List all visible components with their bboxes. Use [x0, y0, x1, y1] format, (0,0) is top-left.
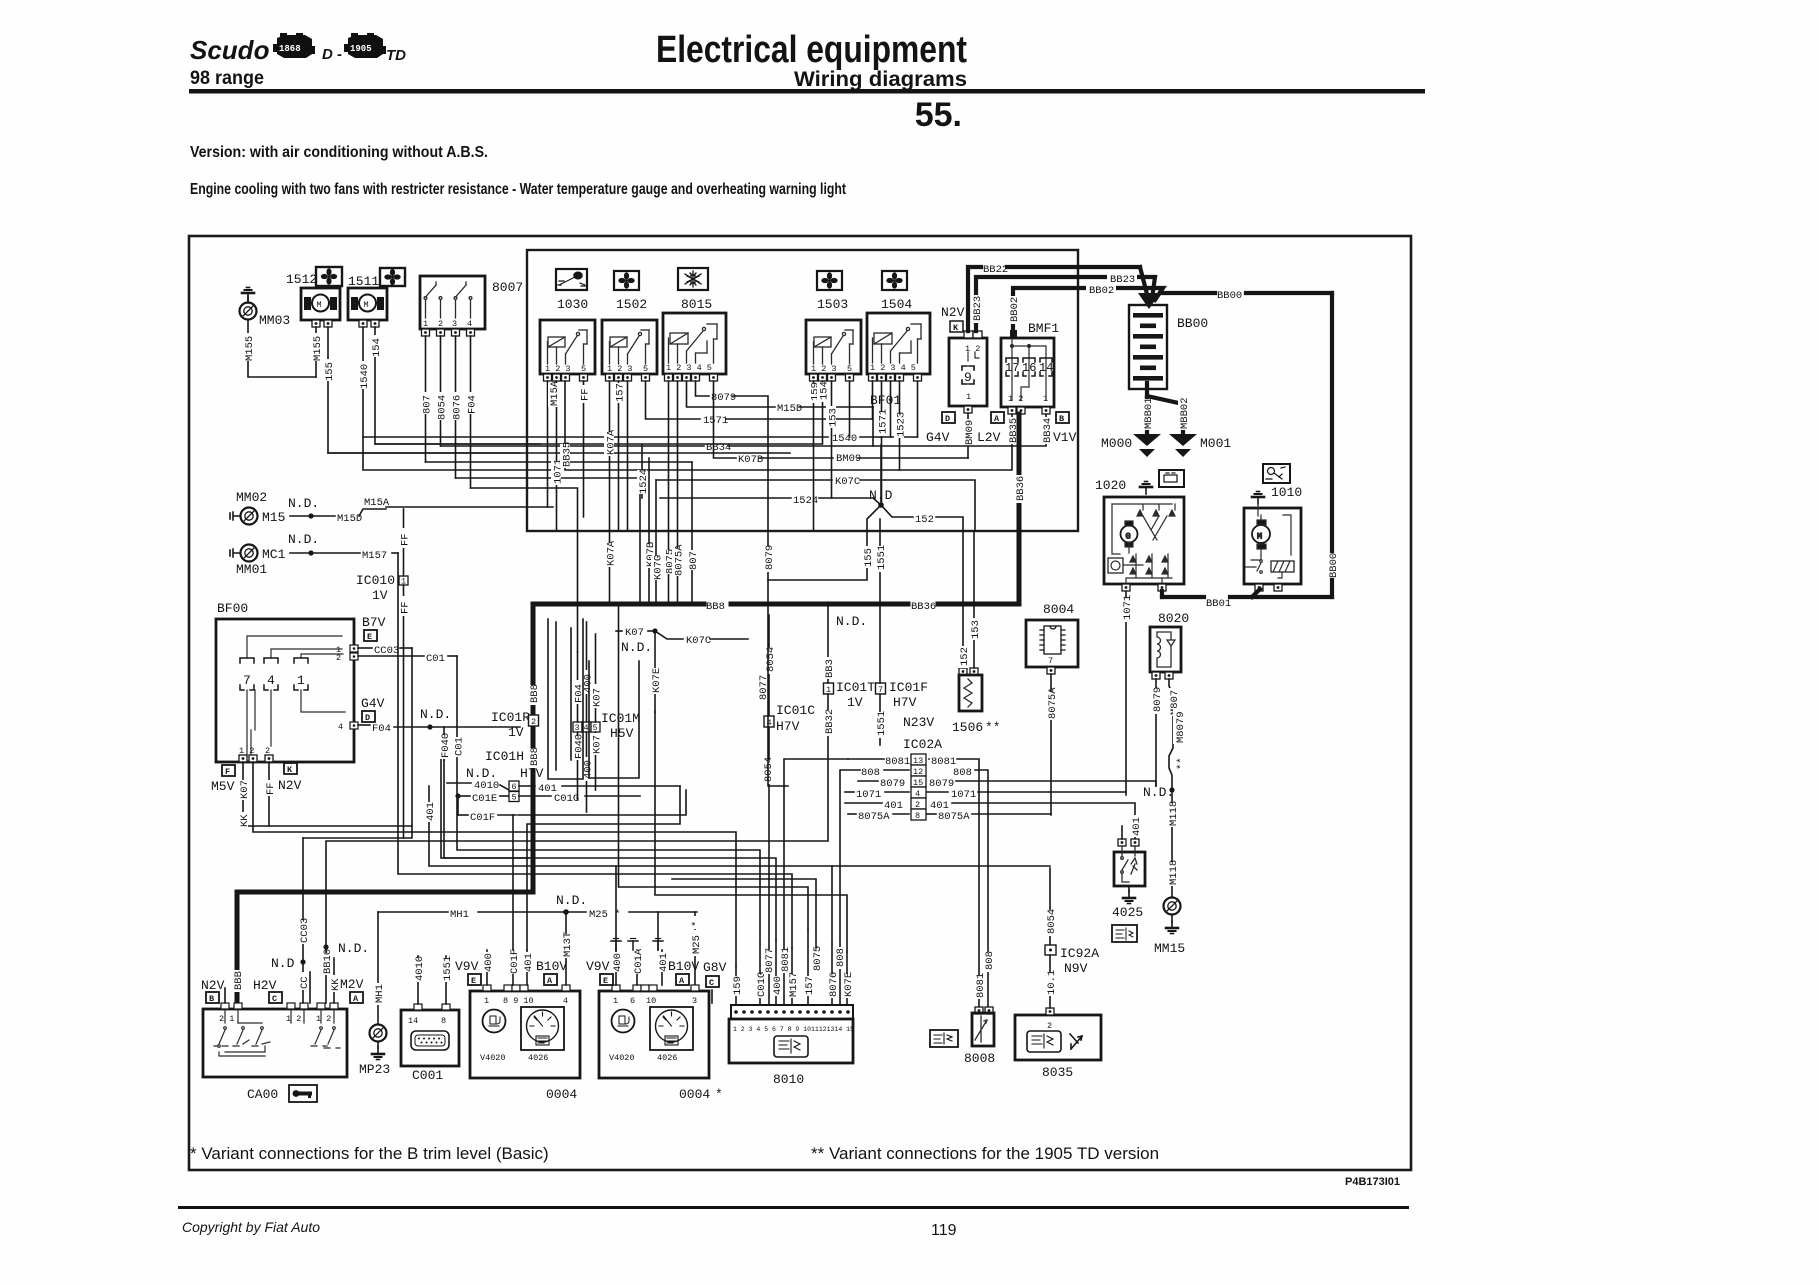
wire K07G vertical below box [655, 480, 657, 604]
svg-text:Version: with air conditioning: Version: with air conditioning without A… [190, 144, 488, 161]
ignition switch CA00 [203, 1003, 347, 1102]
wire 157 relay1502 pin2 [618, 381, 620, 531]
svg-text:808: 808 [953, 767, 972, 779]
svg-text:C01G: C01G [554, 793, 579, 805]
svg-text:808: 808 [835, 948, 847, 967]
svg-text:C01F: C01F [470, 812, 495, 824]
wire MH1 horizontal / M25 [378, 911, 448, 913]
svg-text:8015: 8015 [681, 297, 712, 312]
sensor MM15 [1164, 898, 1181, 915]
svg-text:1: 1 [1043, 394, 1048, 404]
svg-text:8054: 8054 [763, 757, 775, 782]
svg-text:4010: 4010 [474, 780, 499, 792]
wire MH1 vertical [377, 912, 379, 1024]
svg-text:16: 16 [1022, 361, 1036, 375]
wire 8075A relay8015 pin2 [677, 381, 679, 604]
wire K07B vertical below box [648, 458, 650, 604]
wire K07B relay8015 pin5 [714, 381, 737, 458]
wire 8076 vertical to 8010 [831, 866, 833, 944]
svg-text:4010: 4010 [414, 956, 426, 981]
svg-text:N.D.: N.D. [288, 532, 319, 547]
wire 1540 pin1 1511 [363, 327, 560, 470]
wire C01F [457, 796, 459, 815]
svg-text:M15D: M15D [777, 403, 802, 415]
svg-text:M8079: M8079 [1175, 711, 1187, 743]
svg-text:8075A: 8075A [938, 811, 970, 823]
wire F040 route [444, 760, 776, 940]
svg-text:K07E: K07E [843, 972, 855, 997]
connector 8010 [729, 1005, 854, 1087]
svg-text:1512: 1512 [286, 272, 317, 287]
ECU 8004 [1026, 602, 1078, 674]
wire 8081 label [974, 975, 984, 999]
svg-text:N.D: N.D [271, 956, 295, 971]
wire FF vertical [403, 509, 405, 576]
svg-text:1 2: 1 2 [965, 344, 980, 354]
wire FF relay1030 pin5 [583, 381, 585, 517]
svg-text:400: 400 [772, 976, 784, 995]
svg-text:5: 5 [512, 793, 517, 803]
svg-text:6: 6 [630, 996, 635, 1006]
svg-text:Copyright by Fiat Auto: Copyright by Fiat Auto [182, 1219, 320, 1235]
outer diagram frame [189, 236, 1411, 1170]
wire 1010 to C001 [417, 956, 419, 1004]
wire K07E to 8010 [846, 952, 848, 1005]
svg-text:MH1: MH1 [450, 909, 469, 921]
svg-text:*: * [691, 921, 703, 927]
svg-text:8004: 8004 [1043, 602, 1074, 617]
svg-text:155: 155 [324, 362, 336, 381]
sensor MM03 [240, 303, 257, 320]
wire 8076 horizontal [456, 478, 641, 604]
rot labels lower mesh [439, 735, 449, 759]
wire 807 vertical below [691, 462, 693, 604]
svg-text:1551: 1551 [442, 956, 454, 981]
arrowhead into battery [1138, 293, 1160, 309]
svg-text:MC1: MC1 [262, 547, 286, 562]
wire up from junction [880, 445, 882, 505]
svg-text:153: 153 [970, 620, 982, 639]
svg-text:N.D.: N.D. [1143, 785, 1174, 800]
svg-text:MM01: MM01 [236, 562, 267, 577]
wire M15D relay8015 pin3 [687, 381, 776, 407]
wire C01A to 0004star [636, 950, 638, 985]
svg-text:IC01T: IC01T [836, 680, 875, 695]
svg-text:MM15: MM15 [1154, 941, 1185, 956]
wire BB10 segment + junction [323, 944, 328, 949]
engine icon 1868 [273, 33, 315, 58]
ladder row 808 [884, 769, 909, 771]
wire 8075A from 8004 [1050, 674, 1052, 815]
svg-text:BM09: BM09 [964, 420, 976, 445]
svg-text:1524: 1524 [638, 469, 650, 494]
svg-text:1571: 1571 [703, 415, 728, 427]
svg-text:H7V: H7V [776, 719, 800, 734]
wire 8076 [455, 336, 457, 478]
svg-text:V9V: V9V [586, 959, 610, 974]
wire H2V pin2 stub [309, 972, 311, 1003]
svg-text:400: 400 [483, 953, 495, 972]
svg-text:1868: 1868 [279, 44, 301, 54]
svg-text:8 9 10: 8 9 10 [503, 996, 534, 1006]
svg-text:N.D.: N.D. [466, 766, 497, 781]
svg-text:V9V: V9V [455, 959, 479, 974]
svg-text:N.D.: N.D. [288, 496, 319, 511]
svg-text:N.D.: N.D. [836, 614, 867, 629]
svg-text:8010: 8010 [773, 1072, 804, 1087]
svg-text:M5V: M5V [211, 779, 235, 794]
svg-text:IC01F: IC01F [889, 680, 928, 695]
svg-text:MM02: MM02 [236, 490, 267, 505]
svg-text:Scudo: Scudo [190, 35, 270, 65]
wire 8076 to 8010 [831, 944, 833, 1005]
svg-text:K: K [953, 323, 959, 333]
svg-text:808: 808 [984, 951, 996, 970]
svg-text:1 2: 1 2 [1008, 394, 1023, 404]
wire 8054 row to 8035 [616, 865, 1050, 867]
svg-text:MP23: MP23 [359, 1062, 390, 1077]
svg-text:BB01: BB01 [1206, 598, 1231, 610]
svg-text:4: 4 [563, 996, 568, 1006]
svg-text:153: 153 [828, 408, 840, 427]
svg-text:MM03: MM03 [259, 313, 290, 328]
wire 401 T-bar line [657, 912, 659, 950]
svg-text:1 2: 1 2 [286, 1014, 301, 1024]
svg-text:1071: 1071 [1122, 595, 1134, 620]
svg-text:B10V: B10V [668, 959, 699, 974]
svg-text:4026: 4026 [657, 1053, 677, 1063]
wire 1551 to C001 [445, 956, 447, 1004]
svg-text:1905: 1905 [350, 44, 372, 54]
svg-text:BB8: BB8 [706, 601, 725, 613]
svg-text:F040: F040 [440, 733, 452, 758]
T terminals [611, 939, 621, 951]
svg-text:M25: M25 [691, 935, 703, 954]
wire 154 pin2 1511 [375, 327, 540, 444]
svg-text:A: A [547, 976, 553, 986]
svg-text:8079: 8079 [764, 545, 776, 570]
svg-text:H7V: H7V [520, 766, 544, 781]
svg-text:F: F [225, 767, 230, 777]
svg-text:BB8: BB8 [529, 747, 541, 766]
wire 1571 relay1504 pin2 [881, 381, 883, 505]
svg-text:M: M [1257, 532, 1262, 542]
wire 808 label [834, 947, 844, 969]
connector K marker (below BF00) [284, 763, 297, 775]
svg-text:MBB02: MBB02 [1179, 397, 1191, 429]
svg-text:7: 7 [243, 673, 251, 688]
svg-text:G4V: G4V [361, 696, 385, 711]
battery BB00 [1129, 305, 1208, 389]
svg-text:10: 10 [646, 996, 656, 1006]
svg-text:C: C [272, 994, 277, 1004]
svg-text:H7V: H7V [893, 695, 917, 710]
wire BM09 from BF01 [967, 413, 969, 458]
svg-text:1551: 1551 [876, 545, 888, 570]
svg-text:8054: 8054 [1046, 909, 1058, 934]
wire 400 to 8010 [775, 940, 777, 1005]
wire 155 pin2 1512 [328, 327, 520, 453]
wire relay1502 pin3 [627, 381, 629, 531]
svg-text:K07C: K07C [835, 476, 860, 488]
svg-text:8: 8 [441, 1016, 446, 1026]
svg-text:Engine cooling with two fans w: Engine cooling with two fans with restri… [190, 181, 847, 198]
wire BB3 [827, 604, 829, 683]
wire C01F to 0004 [512, 950, 514, 985]
ladder row 8075A [893, 813, 909, 815]
svg-text:N.D.: N.D. [556, 893, 587, 908]
svg-text:A: A [679, 976, 685, 986]
wire 1524 vertical [641, 445, 643, 498]
svg-text:8: 8 [915, 811, 920, 821]
svg-text:BB34: BB34 [706, 442, 731, 454]
svg-text:Electrical equipment: Electrical equipment [656, 29, 967, 71]
svg-text:152: 152 [959, 647, 971, 666]
svg-text:1: 1 [613, 996, 618, 1006]
connector D marker [942, 412, 955, 424]
ground MM03 [242, 288, 254, 301]
svg-text:C01E: C01E [472, 793, 497, 805]
svg-text:1V: 1V [847, 695, 863, 710]
svg-text:M000: M000 [1101, 436, 1132, 451]
svg-text:BB36: BB36 [911, 601, 936, 613]
svg-text:808: 808 [861, 767, 880, 779]
svg-text:IC010: IC010 [356, 573, 395, 588]
svg-text:IC01M: IC01M [601, 711, 640, 726]
ground M000 [1133, 434, 1161, 457]
svg-text:C01A: C01A [633, 948, 645, 974]
wire K07A relay1502 pin1 [609, 381, 611, 604]
wire BB34 from BMF1 right pin [728, 414, 1046, 446]
connector F marker [222, 765, 235, 777]
wire 8054/8077 IC01C [768, 615, 770, 716]
svg-text:10.1: 10.1 [1046, 970, 1058, 995]
ladder row 8079 [858, 780, 878, 782]
svg-text:3: 3 [452, 319, 457, 329]
relay 1502 icon [614, 271, 647, 312]
svg-text:4: 4 [267, 673, 275, 688]
svg-text:IC92A: IC92A [1060, 946, 1099, 961]
svg-text:A: A [353, 994, 359, 1004]
wire 8075 relay8015 pin1 [668, 381, 670, 604]
svg-text:D -: D - [322, 46, 342, 63]
wire C01 route down [457, 656, 760, 944]
wire 401 to 4025 [1130, 815, 1140, 837]
svg-text:K07A: K07A [606, 429, 618, 455]
wire C01 from BF00 pin2 [358, 655, 424, 657]
svg-text:401: 401 [425, 802, 437, 821]
ladder row 401 [845, 802, 882, 804]
svg-text:154: 154 [371, 338, 383, 357]
instrument cluster 0004* [599, 985, 709, 1078]
svg-text:K07: K07 [592, 688, 604, 707]
wire 1551 lower [879, 694, 881, 745]
svg-text:1: 1 [297, 673, 305, 688]
svg-text:1506: 1506 [952, 720, 983, 735]
svg-text:8081: 8081 [780, 947, 792, 972]
svg-text:F04: F04 [372, 723, 391, 735]
wire 4010 [447, 782, 471, 784]
svg-text:N9V: N9V [1064, 961, 1088, 976]
wire FF from BF00 [268, 762, 270, 826]
svg-text:M001: M001 [1200, 436, 1231, 451]
svg-text:M155: M155 [244, 336, 256, 361]
wire 400 to 0004star [615, 950, 617, 985]
svg-text:2: 2 [438, 319, 443, 329]
svg-text:C01: C01 [426, 653, 445, 665]
svg-text:G4V: G4V [926, 430, 950, 445]
svg-text:1071: 1071 [951, 789, 976, 801]
svg-text:D: D [945, 414, 950, 424]
wire 153 relay1503 pin3 [831, 381, 833, 498]
svg-text:M118: M118 [1168, 801, 1180, 826]
svg-text:P4B173I01: P4B173I01 [1345, 1176, 1400, 1188]
svg-text:IC02A: IC02A [903, 737, 942, 752]
wire 8075 route to 8010 [672, 879, 816, 948]
wire 8079 relay8015 pin4 [696, 381, 710, 396]
svg-text:G8V: G8V [703, 960, 727, 975]
wire 401 to 0004 [526, 950, 528, 985]
wire relay1504 pin3 [890, 381, 892, 437]
svg-text:2: 2 [531, 717, 536, 727]
wire 155 [768, 505, 881, 580]
svg-text:157: 157 [615, 383, 627, 402]
svg-text:D: D [365, 713, 370, 723]
svg-text:1524: 1524 [793, 495, 818, 507]
svg-text:C01G: C01G [756, 972, 768, 997]
svg-text:N2V: N2V [941, 305, 965, 320]
wire routing U rect B [589, 661, 639, 778]
svg-text:N2V: N2V [201, 978, 225, 993]
header rule [189, 89, 1425, 94]
svg-text:1020: 1020 [1095, 478, 1126, 493]
connector B marker [1056, 412, 1069, 424]
svg-text:8008: 8008 [964, 1051, 995, 1066]
relay 1504 icon [881, 271, 912, 312]
svg-text:BB34: BB34 [1042, 418, 1054, 443]
wire MM03 ground stub [247, 296, 249, 303]
wire 1071 relay1030 pin2 [556, 381, 558, 531]
svg-text:8076: 8076 [452, 395, 464, 420]
svg-text:157: 157 [804, 976, 816, 995]
wire 807 horizontal [426, 461, 693, 463]
wire CC03/CC line [302, 838, 304, 1003]
svg-text:7: 7 [1048, 656, 1053, 666]
svg-text:8075A: 8075A [674, 544, 686, 576]
svg-text:TD: TD [386, 47, 406, 64]
svg-text:K07B: K07B [738, 454, 763, 466]
ladder connector IC02A pins [911, 754, 926, 821]
wire K07E route to 8010 [655, 712, 847, 952]
svg-text:M118: M118 [1168, 860, 1180, 885]
svg-text:MBB01: MBB01 [1143, 397, 1155, 429]
svg-text:BB00: BB00 [1177, 316, 1208, 331]
svg-text:1: 1 [484, 996, 489, 1006]
svg-text:A: A [994, 414, 1000, 424]
svg-text:14: 14 [408, 1016, 418, 1026]
starter motor 1010 [1244, 464, 1302, 591]
wire routing U rect A [548, 619, 583, 779]
svg-text:8075A: 8075A [1047, 687, 1059, 719]
svg-text:K07: K07 [625, 627, 644, 639]
wire 159 to 8010 [735, 966, 737, 1005]
wire M13T to 0004 [565, 912, 567, 985]
wire BB23 thick [976, 277, 1155, 331]
svg-text:9: 9 [964, 370, 972, 385]
svg-text:2: 2 [336, 653, 341, 663]
svg-text:V4020: V4020 [609, 1053, 635, 1063]
svg-text:1571: 1571 [878, 409, 890, 434]
svg-text:IC01H: IC01H [485, 749, 524, 764]
wire M15A relay1030 pin1 [547, 381, 549, 507]
svg-text:K07: K07 [239, 780, 251, 799]
svg-text:C01: C01 [454, 737, 466, 756]
svg-text:IC01C: IC01C [776, 703, 815, 718]
wire CC03 route down [303, 648, 412, 838]
wire C01E [455, 793, 460, 798]
ladder row 1071 [885, 791, 909, 793]
svg-text:1504: 1504 [881, 297, 912, 312]
wire K07E from junction [654, 631, 656, 712]
alternator 1020 [1095, 470, 1184, 591]
svg-text:8079: 8079 [711, 392, 736, 404]
wire 153 to 1506 [973, 531, 975, 668]
connector K marker [950, 321, 963, 333]
svg-text:1V: 1V [372, 588, 388, 603]
relay 1503 icon [817, 271, 848, 312]
svg-text:807: 807 [422, 395, 434, 414]
svg-text:2: 2 [1047, 1021, 1052, 1031]
svg-text:1V: 1V [508, 725, 524, 740]
svg-text:FF: FF [580, 388, 592, 401]
svg-text:C001: C001 [412, 1068, 443, 1083]
svg-text:B: B [209, 994, 214, 1004]
svg-text:8081: 8081 [975, 973, 987, 998]
svg-text:4025: 4025 [1112, 905, 1143, 920]
wire 401 route to 0004 [527, 786, 680, 950]
svg-text:BB36: BB36 [1015, 476, 1027, 501]
svg-text:K: K [287, 765, 293, 775]
svg-text:8054: 8054 [437, 395, 449, 420]
relay 8020 [1150, 611, 1189, 679]
temp gauge 8035 [1015, 1008, 1101, 1080]
wire BB00 thick [1160, 293, 1332, 597]
svg-text:400: 400 [612, 953, 624, 972]
svg-text:K07A: K07A [606, 540, 618, 566]
svg-text:FF: FF [400, 533, 412, 546]
connector C001 [401, 1004, 459, 1083]
svg-text:8054: 8054 [765, 647, 777, 672]
fuse unit BF01 [949, 331, 987, 413]
svg-text:1030: 1030 [557, 297, 588, 312]
svg-text:8081: 8081 [885, 756, 910, 768]
svg-text:1502: 1502 [616, 297, 647, 312]
svg-text:8075: 8075 [812, 946, 824, 971]
wire 400 IC01M [586, 622, 588, 722]
wire 1571 relay1504 pin1 [872, 381, 874, 419]
wire K07 from BF00 [243, 762, 412, 826]
relay 1504 [867, 313, 930, 381]
wire 8054 [440, 336, 442, 446]
svg-text:MH1: MH1 [374, 984, 386, 1003]
wire 157 route to 8010 [619, 604, 809, 930]
connector A marker [991, 412, 1004, 424]
wire 1571 relay1502 pin5 horizontal [646, 381, 701, 419]
svg-text:E: E [367, 632, 372, 642]
inner relay group box [527, 250, 1078, 531]
svg-text:1523: 1523 [896, 412, 908, 437]
svg-text:H5V: H5V [610, 726, 634, 741]
